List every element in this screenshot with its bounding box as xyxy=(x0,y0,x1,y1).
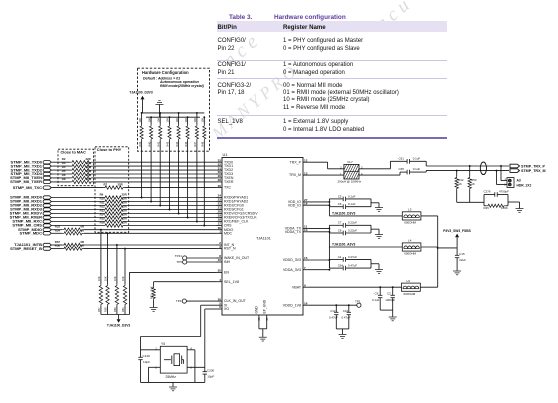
svg-text:R61: R61 xyxy=(121,307,125,312)
wire SEL_1V8 xyxy=(154,281,216,283)
inductor L3 600OHM xyxy=(402,212,421,220)
node STMP_MII_TXC connector stub xyxy=(43,186,51,189)
svg-text:U1: U1 xyxy=(223,152,228,157)
svg-text:200uH @ 100KHz: 200uH @ 100KHz xyxy=(338,180,362,184)
wire STMP_MII_TXER xyxy=(53,181,70,183)
wire pull-up common bar xyxy=(101,314,130,316)
svg-text:0.1uF: 0.1uF xyxy=(348,194,356,198)
U1 pin 6 XO xyxy=(216,308,222,310)
svg-text:C146: C146 xyxy=(143,354,151,358)
U1 pin 26 TXC xyxy=(216,187,222,189)
U1 pin 23 RXD1/PHYAD2 xyxy=(216,201,222,203)
svg-text:C2: C2 xyxy=(387,292,391,296)
svg-text:10K: 10K xyxy=(147,118,151,123)
wire choke out M xyxy=(359,174,400,176)
resistor R60 10K pull-up xyxy=(116,244,118,246)
svg-text:10K: 10K xyxy=(166,118,170,123)
svg-text:R7: R7 xyxy=(104,183,108,187)
svg-text:10K: 10K xyxy=(104,276,108,281)
node STMP_MII_TXER connector stub xyxy=(43,180,51,183)
svg-text:C61: C61 xyxy=(399,156,405,160)
U1 pin 11 VDDA_TX xyxy=(303,227,309,229)
Close to PHY dashed box xyxy=(95,147,129,233)
wire VDDA to L4 xyxy=(328,233,330,268)
resistor R39 strap pull xyxy=(141,113,143,125)
svg-text:9: 9 xyxy=(304,283,306,287)
node STMP_MII_TXD0 connector stub xyxy=(43,161,51,164)
resistor R3 22R series xyxy=(70,164,93,167)
node STMP_MII_TXD3 connector stub xyxy=(43,172,51,175)
resistor R41 strap pull xyxy=(159,113,161,125)
svg-text:10K: 10K xyxy=(97,276,101,281)
U1 pin 21 RXD3/CFG1 xyxy=(216,209,222,211)
test point TP4 xyxy=(182,299,186,303)
node STMP_MII_RXDV connector stub xyxy=(43,212,51,215)
capacitor C2 1000pF xyxy=(392,286,394,288)
svg-text:A3: A3 xyxy=(517,178,521,182)
node STMP_MII_RXD0 connector stub xyxy=(43,196,51,199)
U1 pin 7 VDDA_3V3 xyxy=(303,269,309,271)
resistor R45 100K xyxy=(486,204,506,207)
ground C9/C2 xyxy=(389,316,397,318)
svg-text:MDC: MDC xyxy=(224,231,232,235)
wire XI to crystal xyxy=(201,304,216,306)
U1 pin 33 TXD0 xyxy=(216,161,222,163)
svg-text:STMP_TRX_M: STMP_TRX_M xyxy=(521,169,546,173)
wire C9/C2 ground bar xyxy=(380,309,393,311)
U1 pin 22 RXD2/CFG0 xyxy=(216,205,222,207)
U1 pin 21 EP_GND bottom xyxy=(266,315,268,329)
svg-text:10: 10 xyxy=(218,258,222,262)
svg-text:R44: R44 xyxy=(175,141,179,146)
resistor R10 22R series xyxy=(103,200,125,203)
resistor R12 22R series xyxy=(103,208,125,211)
svg-text:22R: 22R xyxy=(86,177,91,181)
resistor R15 22R series xyxy=(103,220,125,223)
resistor R47 strap pull xyxy=(196,113,198,125)
wire strap supply bus xyxy=(143,112,205,114)
svg-text:10K: 10K xyxy=(121,276,125,281)
resistor R44 strap pull xyxy=(178,113,180,125)
svg-text:C15: C15 xyxy=(459,252,465,256)
U1 pin 29 TXEN xyxy=(216,177,222,179)
capacitor C200 10pF xyxy=(204,367,206,371)
svg-text:R8: R8 xyxy=(62,177,66,181)
ground under U1 xyxy=(259,336,267,338)
node STMP_MII_RXD3 connector stub xyxy=(43,208,51,211)
wire C12/C10 ground bar xyxy=(336,328,349,330)
svg-text:10pF: 10pF xyxy=(143,360,150,364)
svg-text:C64: C64 xyxy=(338,264,344,268)
wire STMP_MII_CRS xyxy=(53,225,103,227)
wire STMP_MDC xyxy=(53,232,62,234)
resistor R13 22R series xyxy=(103,212,125,215)
resistor R40 strap pull xyxy=(150,117,152,124)
svg-text:C1: C1 xyxy=(338,255,342,259)
U1 pin 30 TXD3 xyxy=(216,173,222,175)
svg-text:Close to PHY: Close to PHY xyxy=(97,147,122,152)
test point TP5 xyxy=(183,260,187,264)
capacitor C1 C64 VDDD decoupling xyxy=(309,259,329,261)
svg-text:25: 25 xyxy=(257,317,261,321)
svg-text:TXER: TXER xyxy=(224,180,234,184)
svg-text:10K: 10K xyxy=(193,118,197,123)
node strap junction on RX row xyxy=(159,205,161,207)
twisted pair marker xyxy=(480,162,486,175)
svg-text:TP21: TP21 xyxy=(175,254,183,258)
wire L4 to P3V3 bus xyxy=(421,246,438,248)
wire TRX_M to choke xyxy=(309,174,344,176)
wire crystal pin2 xyxy=(149,366,161,368)
svg-text:R58: R58 xyxy=(104,307,108,312)
wire STMP_MII_TXEN xyxy=(53,177,70,179)
svg-text:RST_N: RST_N xyxy=(224,247,236,251)
U1 pin 25 GND bottom xyxy=(258,315,260,329)
U1 pin 36 MDIO xyxy=(216,229,222,231)
wire STMP_MII_RXD3 xyxy=(53,209,103,211)
U1 pin 13 TRX_M xyxy=(303,174,309,176)
svg-text:C8: C8 xyxy=(338,228,342,232)
wire XO to crystal xyxy=(205,308,216,310)
wire STMP_MII_RXC xyxy=(53,221,103,223)
node strap junction on RX row xyxy=(150,201,152,203)
wire crystal pin1 xyxy=(141,349,161,351)
wire VDD_IO to L3 xyxy=(328,207,330,216)
node STMP_MII_RXC connector stub xyxy=(43,220,51,223)
capacitor C65 0.1uF series xyxy=(406,170,408,175)
svg-text:10K: 10K xyxy=(184,118,188,123)
U1 pin 8 WAKE_IN_OUT xyxy=(216,257,222,259)
U1 pin 24 RXD0/PHYAD1 xyxy=(216,197,222,199)
U1 pin 18 RXC/REF_CLK xyxy=(216,221,222,223)
svg-text:10K: 10K xyxy=(150,286,154,291)
test point TP1 xyxy=(357,303,361,307)
wire STMP_MII_TXD2 xyxy=(53,169,70,171)
svg-text:3: 3 xyxy=(219,245,221,249)
wire STMP_MII_TXD0 xyxy=(53,161,70,163)
svg-text:EN: EN xyxy=(224,271,229,275)
ground C12/C10 xyxy=(339,334,347,336)
crystal Y5 25MHz xyxy=(160,346,187,373)
U1 pin 14 VDDA_TX xyxy=(303,231,309,233)
ground SEL pulldown xyxy=(150,307,158,309)
U1 pin 19 VDD_IO xyxy=(303,204,309,206)
node STMP_MII_TXD2 connector stub xyxy=(43,168,51,171)
svg-text:16: 16 xyxy=(304,301,308,305)
svg-text:0.22uF: 0.22uF xyxy=(348,228,357,232)
capacitor C12 0.47uF xyxy=(335,304,337,306)
svg-text:TJA1100_A3V3: TJA1100_A3V3 xyxy=(332,243,356,247)
wire crystal pin4 xyxy=(187,349,195,351)
svg-text:10K: 10K xyxy=(113,276,117,281)
node TJA1101_INTB connector stub xyxy=(43,243,51,246)
resistor R58 10K pull-up xyxy=(107,232,109,234)
svg-text:35: 35 xyxy=(218,269,222,273)
node STMP_TRX_P connector stub xyxy=(510,164,520,168)
svg-text:6: 6 xyxy=(219,305,221,309)
node STMP_MII_RXD2 connector stub xyxy=(43,204,51,207)
svg-text:C200: C200 xyxy=(207,368,215,372)
svg-text:STMP_RESET_B: STMP_RESET_B xyxy=(10,246,42,251)
svg-text:10K: 10K xyxy=(156,118,160,123)
svg-text:TRX_P: TRX_P xyxy=(290,160,302,164)
svg-text:R62: R62 xyxy=(150,294,154,299)
node STMP_RESET_B connector stub xyxy=(43,247,51,250)
node strap junction on RX row xyxy=(196,221,198,223)
wire to bob-smith ground xyxy=(508,201,520,203)
svg-text:Hardware Configuration: Hardware Configuration xyxy=(142,70,189,75)
wire STMP_RESET_B xyxy=(53,248,62,250)
svg-text:C12: C12 xyxy=(330,309,336,313)
svg-text:Close to MAC: Close to MAC xyxy=(61,150,86,155)
node STMP_MII_CRS connector stub xyxy=(43,224,51,227)
U1 pin 27 VDD_IO xyxy=(303,201,309,203)
resistor R16 22R series xyxy=(103,224,125,227)
svg-text:C9: C9 xyxy=(375,292,379,296)
svg-text:FL7: FL7 xyxy=(348,160,354,164)
svg-text:TJA1101: TJA1101 xyxy=(256,237,271,241)
test point TP21 xyxy=(183,256,187,260)
svg-text:1K: 1K xyxy=(458,182,462,186)
svg-text:R57: R57 xyxy=(97,307,101,312)
svg-text:R41: R41 xyxy=(156,141,160,146)
node strap junction on RX row xyxy=(203,225,205,227)
svg-text:R60: R60 xyxy=(113,307,117,312)
svg-text:4: 4 xyxy=(219,278,221,282)
Hardware Configuration dashed box xyxy=(138,68,210,151)
power P3V3_SW3_FSBS flag xyxy=(438,247,457,249)
U1 pin 19 RXER/CFG3/TXCLK xyxy=(216,217,222,219)
node strap junction on RX row xyxy=(187,217,189,219)
svg-text:TP4: TP4 xyxy=(176,299,182,303)
node STMP_MII_RXER connector stub xyxy=(43,216,51,219)
node strap junction on RX row xyxy=(178,213,180,215)
svg-text:TP5: TP5 xyxy=(176,260,182,264)
svg-text:TJA1100_D3V3: TJA1100_D3V3 xyxy=(107,324,131,328)
wire STMP_MDIO xyxy=(53,229,62,231)
svg-text:22R: 22R xyxy=(118,183,123,187)
resistor R6 22R series xyxy=(70,176,93,179)
svg-text:P3V3_SW3_FSBS: P3V3_SW3_FSBS xyxy=(443,229,471,233)
wire VDDD_1V8 xyxy=(309,304,357,306)
svg-text:XO: XO xyxy=(224,307,229,311)
node STMP_MII_TXD1 connector stub xyxy=(43,164,51,167)
svg-text:GND: GND xyxy=(255,306,259,314)
svg-text:HDR_1X2: HDR_1X2 xyxy=(517,183,532,187)
wire TJA1101_INTB xyxy=(53,244,62,246)
svg-text:0.1uF: 0.1uF xyxy=(372,298,380,302)
node STMP_TRX_M connector stub xyxy=(510,169,520,173)
svg-text:0.47uF: 0.47uF xyxy=(348,264,357,268)
node STMP_MII_TXEN connector stub xyxy=(43,176,51,179)
resistor R50 1K termination xyxy=(469,165,471,167)
resistor R43 strap pull xyxy=(169,117,171,124)
wire L6 to P3V3 bus xyxy=(420,286,437,288)
node STMP_MII_RXD1 connector stub xyxy=(43,200,51,203)
wire crystal ground rail xyxy=(141,381,205,383)
U1 pin 1 MDC xyxy=(216,232,222,234)
svg-text:21: 21 xyxy=(265,317,269,321)
U1 pin 20 RXDV/CFG2/CRSDV xyxy=(216,213,222,215)
wire STMP_MII_TXC xyxy=(53,187,103,189)
header A3 HDR_1X2 xyxy=(500,165,502,167)
resistor R9 22R series xyxy=(103,196,125,199)
U1 pin 15 VDDD_3V3 xyxy=(303,259,309,261)
svg-text:L3: L3 xyxy=(408,207,412,211)
svg-text:0.47uF: 0.47uF xyxy=(348,255,357,259)
svg-text:Y5: Y5 xyxy=(161,342,165,346)
svg-text:C7: C7 xyxy=(338,221,342,225)
node STMP_MDC connector stub xyxy=(43,232,51,235)
capacitor C276 4700pF xyxy=(483,195,485,206)
svg-text:0.22uF: 0.22uF xyxy=(348,221,357,225)
svg-text:7: 7 xyxy=(304,266,306,270)
svg-text:10pF: 10pF xyxy=(207,374,214,378)
resistor R38 0R series xyxy=(62,247,84,250)
svg-text:4700pF: 4700pF xyxy=(499,190,509,194)
svg-text:TP1: TP1 xyxy=(355,299,361,303)
wire STMP_MII_RXDV xyxy=(53,213,103,215)
svg-text:R45: R45 xyxy=(484,206,490,210)
resistor R61 10K pull-up xyxy=(124,248,126,250)
node strap junction on RX row xyxy=(169,209,171,211)
U1 pin 32 TXD1 xyxy=(216,165,222,167)
resistor R62 10K SEL_1V8 pulldown xyxy=(152,286,155,300)
ground crystal xyxy=(169,386,177,388)
resistor R46 strap pull xyxy=(187,117,189,124)
svg-text:0.47uF: 0.47uF xyxy=(342,315,351,319)
capacitor C146 10pF xyxy=(140,337,142,358)
svg-text:0R: 0R xyxy=(81,228,85,232)
svg-text:0.1uF: 0.1uF xyxy=(413,167,421,171)
wire STMP_MII_RXER xyxy=(53,217,103,219)
svg-text:TRX_M: TRX_M xyxy=(289,173,301,177)
svg-text:1: 1 xyxy=(219,230,221,234)
svg-text:C276: C276 xyxy=(484,190,491,194)
svg-text:0R: 0R xyxy=(81,244,85,248)
svg-text:EP_GND: EP_GND xyxy=(263,299,267,313)
U1 pin 31 TXD2 xyxy=(216,169,222,171)
svg-text:VDD_IO: VDD_IO xyxy=(288,203,301,207)
resistor R5 22R series xyxy=(70,172,93,175)
wire choke out P xyxy=(359,168,390,170)
svg-text:C5: C5 xyxy=(338,194,342,198)
svg-text:10K: 10K xyxy=(201,118,205,123)
capacitor C7 C8 VDDA_TX decoupling xyxy=(309,227,329,229)
capacitor C15 22uF bulk xyxy=(456,248,458,255)
wire EN to supply bar xyxy=(130,271,217,273)
svg-text:100K: 100K xyxy=(501,206,508,210)
Close to MAC dashed box xyxy=(58,149,94,186)
svg-text:C10: C10 xyxy=(343,309,349,313)
svg-text:R46: R46 xyxy=(184,141,188,146)
resistor R57 10K pull-up xyxy=(100,229,102,231)
svg-text:SEL_1V8: SEL_1V8 xyxy=(224,280,239,284)
svg-text:0.1uF: 0.1uF xyxy=(413,156,421,160)
svg-text:600OHM: 600OHM xyxy=(404,221,416,225)
resistor R7 22R series TXC xyxy=(103,186,125,189)
resistor R48 strap pull xyxy=(203,117,205,124)
resistor R8 22R series xyxy=(70,180,93,183)
svg-text:1000pF: 1000pF xyxy=(385,298,395,302)
svg-text:INH: INH xyxy=(224,260,231,264)
svg-text:R43: R43 xyxy=(166,141,170,146)
svg-text:R47: R47 xyxy=(193,141,197,146)
svg-text:R16: R16 xyxy=(100,221,106,225)
svg-text:VDDD_3V3: VDDD_3V3 xyxy=(283,258,301,262)
svg-text:VDDA_TX: VDDA_TX xyxy=(285,230,302,234)
svg-text:TJA1100_D3V3: TJA1100_D3V3 xyxy=(129,91,153,95)
ground (inverted) in strap box xyxy=(159,105,161,118)
svg-text:25MHz: 25MHz xyxy=(166,375,177,379)
capacitor C61 0.1uF series xyxy=(406,159,408,164)
wire STMP_MII_RXD1 xyxy=(53,201,103,203)
resistor R42 1K termination xyxy=(456,170,458,172)
resistor R37 0R series xyxy=(62,243,84,246)
wire STMP_MII_RXD2 xyxy=(53,205,103,207)
svg-text:TJA1100_D3V3: TJA1100_D3V3 xyxy=(332,212,356,216)
U1 pin 10 INH xyxy=(216,261,222,263)
wire L3 to P3V3 bus xyxy=(421,215,438,217)
svg-text:STMP_TRX_P: STMP_TRX_P xyxy=(521,164,546,168)
svg-text:STMP_MDC: STMP_MDC xyxy=(19,231,42,236)
svg-text:12: 12 xyxy=(304,158,308,162)
svg-text:STMP_MII_TXER: STMP_MII_TXER xyxy=(10,179,42,184)
wire STMP_MII_RXD0 xyxy=(53,197,103,199)
U1 pin 2 INT_N xyxy=(216,244,222,246)
svg-text:22uF: 22uF xyxy=(459,258,466,262)
U1 pin 5 XI xyxy=(216,304,222,306)
svg-text:0.47uF: 0.47uF xyxy=(329,315,338,319)
resistor R33 0R series xyxy=(62,228,84,231)
svg-text:R48: R48 xyxy=(201,141,205,146)
wire termination common xyxy=(457,201,484,203)
capacitor C9 0.1uF xyxy=(379,286,381,288)
svg-text:600OHM: 600OHM xyxy=(404,292,416,296)
resistor R4 22R series xyxy=(70,168,93,171)
ground C15 xyxy=(453,270,461,272)
svg-text:13: 13 xyxy=(304,171,308,175)
capacitor C10 0.47uF xyxy=(348,304,350,306)
inductor L6 600OHM xyxy=(402,283,421,291)
svg-text:10K: 10K xyxy=(175,118,179,123)
svg-text:CLK_IN_OUT: CLK_IN_OUT xyxy=(224,299,247,303)
svg-text:15: 15 xyxy=(304,256,308,260)
svg-text:TXC: TXC xyxy=(224,186,232,190)
inductor L4 600OHM xyxy=(402,243,421,251)
U1 pin 3 RST_N xyxy=(216,248,222,250)
U1 pin 4 SEL_1V8 xyxy=(216,281,222,283)
svg-text:VBAT: VBAT xyxy=(292,285,302,289)
ground bob-smith xyxy=(516,208,524,210)
U1 pin 9 VBAT xyxy=(303,286,309,288)
svg-text:L4: L4 xyxy=(408,238,412,242)
node strap junction on RX row xyxy=(141,197,143,199)
svg-text:10K: 10K xyxy=(138,118,142,123)
resistor R2 22R series xyxy=(70,161,93,164)
svg-text:19: 19 xyxy=(304,201,308,205)
svg-text:VDDA_3V3: VDDA_3V3 xyxy=(283,268,301,272)
U1 pin 35 EN xyxy=(216,271,222,273)
svg-text:L6: L6 xyxy=(407,279,411,283)
U1 pin 26 CLK_IN_OUT xyxy=(216,300,222,302)
svg-text:STMP_MII_TXC: STMP_MII_TXC xyxy=(13,185,42,190)
wire STMP_MII_TXD3 xyxy=(53,173,70,175)
wire GND bus under U1 xyxy=(259,328,267,330)
svg-text:600OHM: 600OHM xyxy=(404,252,416,256)
svg-text:1K: 1K xyxy=(471,182,475,186)
svg-text:R39: R39 xyxy=(138,141,142,146)
